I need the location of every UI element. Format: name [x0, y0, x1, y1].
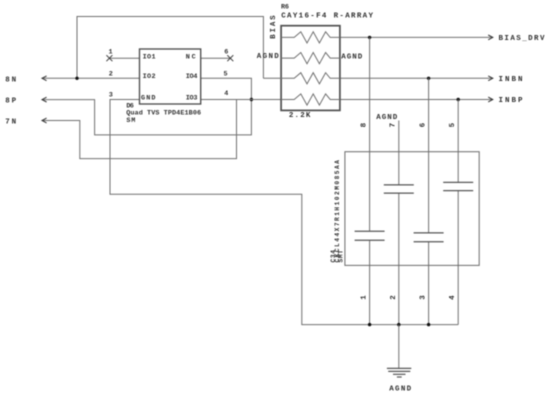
no-connect X pin 1: [106, 55, 112, 61]
arrowhead 8P: [42, 97, 47, 102]
node junction row3 cap pin6: [427, 77, 430, 80]
arrowhead INBP: [488, 97, 493, 102]
arrowhead 8N: [42, 76, 47, 81]
resistor R6.3 zigzag: [263, 73, 340, 84]
wire cap pin 1 drop: [369, 240, 371, 324]
node junction rail pin1: [368, 323, 371, 326]
svg-text:SMT: SMT: [338, 250, 345, 263]
svg-text:7: 7: [390, 123, 398, 128]
svg-text:3: 3: [109, 92, 113, 100]
svg-text:SM: SM: [126, 117, 135, 125]
wire cap pin 8 riser: [369, 37, 371, 231]
arrowhead BIAS_DRV: [488, 35, 493, 40]
capacitor C34.c plates: [414, 232, 444, 234]
capacitor C34.a plates: [355, 230, 385, 232]
wire net 8N top rail: [77, 17, 263, 79]
svg-text:1: 1: [109, 49, 113, 57]
wire IC pin 3 GND to cap rail: [110, 100, 458, 325]
svg-text:IO1: IO1: [143, 53, 156, 61]
wire ground stem: [398, 325, 400, 369]
resistor R6.1 zigzag: [281, 32, 340, 43]
resistor R6.4 zigzag: [281, 94, 340, 105]
node junction row1 cap pin8: [368, 36, 371, 39]
node junction rail pin2: [397, 323, 400, 326]
svg-text:5: 5: [224, 70, 228, 78]
svg-text:AGND: AGND: [341, 53, 362, 61]
wire INBP row to resistor: [237, 99, 282, 101]
svg-text:AGND: AGND: [389, 385, 411, 393]
node junction row4 cap pin5: [457, 98, 460, 101]
svg-text:IO3: IO3: [186, 94, 198, 102]
svg-text:2: 2: [109, 70, 113, 78]
IC D6 TPD4E1B06 box: [140, 49, 201, 104]
wire cap pin 4 drop: [457, 191, 459, 325]
svg-text:GND: GND: [141, 94, 156, 102]
wire resistor row4 to INBP: [340, 99, 493, 101]
svg-text:5: 5: [449, 122, 457, 127]
svg-text:2: 2: [390, 295, 398, 300]
svg-text:AGND: AGND: [376, 114, 397, 122]
wire IC pin 6 stub: [201, 57, 231, 59]
wire cap pin 3 drop: [428, 242, 430, 325]
capacitor C34.b plates: [384, 184, 414, 186]
resistor array R6 box: [281, 26, 340, 111]
wire IC pin 4 to 7N: [42, 100, 237, 159]
arrowhead INBN: [488, 76, 493, 81]
svg-text:NC: NC: [186, 53, 196, 61]
wire 8N to IC pin 2: [42, 77, 140, 79]
wire IC pin 5 to 8P: [42, 78, 251, 135]
ground symbol AGND: [387, 368, 411, 377]
node junction pin5/INBP net: [250, 98, 253, 101]
node junction rail pin3: [427, 323, 430, 326]
wire cap pin 6 riser: [428, 78, 430, 233]
arrowhead 7N: [42, 118, 47, 123]
svg-text:4: 4: [449, 295, 457, 300]
svg-text:CAY16-F4 R-ARRAY: CAY16-F4 R-ARRAY: [281, 12, 373, 20]
svg-text:6: 6: [419, 122, 427, 127]
svg-text:4: 4: [224, 90, 228, 98]
no-connect X pin 6: [227, 55, 233, 61]
svg-text:Quad TVS TPD4E1B06: Quad TVS TPD4E1B06: [126, 110, 201, 118]
svg-text:IO2: IO2: [143, 73, 156, 81]
svg-text:7N: 7N: [5, 118, 16, 126]
wire cap pin 5 riser: [457, 100, 459, 183]
svg-text:INBP: INBP: [499, 97, 523, 105]
svg-text:6: 6: [224, 49, 228, 57]
svg-text:1: 1: [361, 295, 369, 300]
svg-text:BIAS_DRV: BIAS_DRV: [499, 35, 545, 43]
svg-text:CKCL44X7R1H102M085AA: CKCL44X7R1H102M085AA: [334, 160, 341, 263]
svg-text:2.2K: 2.2K: [289, 112, 311, 120]
svg-text:IO4: IO4: [186, 73, 198, 81]
node junction 8N rail: [75, 77, 78, 80]
svg-text:BIAS: BIAS: [270, 15, 278, 39]
svg-text:INBN: INBN: [499, 76, 523, 84]
svg-text:AGND: AGND: [257, 53, 279, 61]
capacitor array C34 box: [345, 152, 479, 266]
svg-text:8P: 8P: [5, 97, 16, 105]
wire IC pin 1 stub: [109, 57, 139, 59]
wire cap pin 2 drop: [398, 193, 400, 325]
wire resistor row1 to BIAS_DRV: [340, 36, 493, 38]
svg-text:R6: R6: [281, 4, 289, 12]
capacitor C34.d plates: [443, 181, 473, 183]
wire cap pin 7 riser AGND stub: [398, 121, 400, 185]
resistor R6.2 zigzag: [281, 53, 340, 64]
svg-text:8N: 8N: [5, 77, 16, 85]
svg-text:3: 3: [420, 295, 428, 300]
svg-text:8: 8: [360, 122, 368, 127]
wire resistor row3 to INBN: [340, 77, 493, 79]
